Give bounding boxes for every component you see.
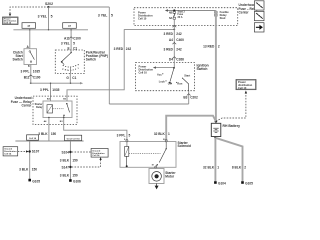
label 3 YEL 5 on line A bbox=[98, 14, 113, 18]
splice S147 dot bbox=[69, 166, 71, 168]
label A4 C400 bbox=[169, 38, 184, 42]
battery symbol bbox=[213, 128, 218, 132]
wire left ground chain bbox=[29, 141, 31, 180]
ground G106 dot bbox=[69, 179, 72, 182]
svg-text:32 BLK: 32 BLK bbox=[203, 166, 215, 170]
svg-text:242: 242 bbox=[126, 47, 132, 51]
underhood fuse-relay center dashed box bbox=[33, 96, 77, 124]
wire relay coil ground 3 BLK 150 bbox=[48, 118, 50, 142]
svg-text:G105: G105 bbox=[32, 179, 40, 183]
solenoid M terminal to motor bbox=[155, 165, 158, 169]
arrowhead up into reference box bbox=[245, 91, 247, 94]
svg-text:32 BLK: 32 BLK bbox=[154, 132, 166, 136]
svg-text:Center: Center bbox=[21, 103, 32, 107]
svg-text:2: 2 bbox=[244, 166, 246, 170]
clutch start switch label bbox=[13, 50, 24, 61]
svg-text:NB: NB bbox=[169, 11, 173, 14]
svg-text:5: 5 bbox=[129, 133, 131, 137]
label 32 BLK 1 (starter cable) bbox=[154, 132, 170, 136]
label 3 BLK 150 (right chain lower) bbox=[60, 173, 78, 177]
label 3 YEL 5 (PNP drop) bbox=[61, 41, 75, 45]
wire battery negative to G104 (thick) bbox=[214, 138, 216, 181]
starter motor box bbox=[149, 169, 164, 184]
boxed grid label 47 (right, on bus) bbox=[63, 23, 77, 29]
label 13 RED 2 bbox=[203, 45, 220, 49]
ignition switch internals bbox=[157, 63, 190, 91]
svg-text:Cell 10: Cell 10 bbox=[139, 70, 148, 74]
wire clutch start switch drop bbox=[29, 30, 31, 49]
svg-text:150: 150 bbox=[72, 158, 78, 162]
label 3 RED 242 (line B) bbox=[114, 47, 132, 51]
svg-text:1: 1 bbox=[217, 166, 219, 170]
underhood fuse-relay center dashed box (top) bbox=[134, 8, 238, 26]
svg-text:8 BLK: 8 BLK bbox=[232, 166, 242, 170]
svg-text:C100: C100 bbox=[33, 76, 41, 80]
splice S107 dot bbox=[29, 150, 31, 152]
svg-text:Cell 14: Cell 14 bbox=[29, 137, 37, 140]
fuse symbol bbox=[173, 11, 175, 19]
solenoid B terminal bbox=[165, 139, 167, 142]
collector wire 3 PPL 1035 with arrow bbox=[30, 82, 83, 84]
motor case ground arrow bbox=[155, 184, 158, 189]
dashed wire battery to power distribution reference bbox=[216, 94, 246, 122]
dashed link S147 to ground distribution box with up arrow bbox=[72, 157, 102, 167]
svg-text:S104: S104 bbox=[62, 150, 70, 154]
PNP switch label bbox=[86, 50, 108, 61]
svg-text:B3: B3 bbox=[183, 96, 187, 100]
wire PNP output bbox=[69, 74, 71, 84]
solenoid switch contact bbox=[157, 142, 167, 165]
junction dot at fuse tap bbox=[173, 9, 175, 11]
svg-text:3 YEL: 3 YEL bbox=[98, 14, 107, 18]
svg-text:3 BLK: 3 BLK bbox=[19, 168, 29, 172]
wire S202 down to bus bbox=[48, 7, 50, 30]
svg-text:Grnd Cell 14: Grnd Cell 14 bbox=[67, 137, 81, 140]
svg-text:242: 242 bbox=[176, 48, 182, 52]
svg-text:C202: C202 bbox=[190, 96, 198, 100]
svg-text:3 PPL: 3 PPL bbox=[40, 88, 49, 92]
svg-text:5: 5 bbox=[51, 15, 53, 19]
battery negative junction dot bbox=[214, 137, 216, 139]
wire relay switch feed (from fuse, line B) bbox=[67, 29, 124, 101]
splice S202 junction dot bbox=[47, 6, 49, 8]
solenoid coil bbox=[125, 142, 129, 156]
svg-text:242: 242 bbox=[176, 32, 182, 36]
starter solenoid box bbox=[120, 142, 176, 168]
junction ticks at collector bbox=[30, 83, 71, 84]
svg-text:M: M bbox=[155, 175, 157, 179]
wire S202 to line A (horizontal top) bbox=[49, 6, 110, 8]
ground G105 dot (right) bbox=[241, 181, 244, 184]
ground G104 dot bbox=[214, 181, 217, 184]
svg-text:Cell 10: Cell 10 bbox=[138, 16, 147, 20]
terminal E C1 label bbox=[68, 46, 78, 50]
label Power Distribution Cell 10 (inside top box) bbox=[138, 10, 153, 20]
label 3 RED 242 bbox=[164, 32, 182, 36]
label 3 PPL 1035 (coil stub) bbox=[40, 88, 60, 92]
svg-text:3 BLK: 3 BLK bbox=[60, 173, 70, 177]
svg-text:13 RED: 13 RED bbox=[203, 45, 215, 49]
wire relay coil feed stub bbox=[50, 83, 52, 101]
label Power Distribution Cell 10 (inside ignition box) bbox=[139, 64, 154, 74]
label 3 BLK 150 bbox=[38, 132, 56, 136]
underhood fuse-relay center label bbox=[11, 96, 33, 107]
starter motor label bbox=[165, 171, 176, 179]
wire clutch switch output 3 PPL 1035 bbox=[30, 65, 32, 84]
wire ignition START output drop bbox=[188, 91, 190, 104]
starter relay label bbox=[35, 103, 43, 109]
connector chevron at box exit bbox=[172, 26, 176, 28]
label B3 C202 on start output bbox=[183, 96, 198, 100]
boxed grid label (ground bus left) bbox=[27, 135, 39, 140]
svg-text:RH Battery: RH Battery bbox=[223, 124, 241, 128]
starter relay coil bbox=[47, 105, 53, 113]
bus wire (hot in start bar) bbox=[13, 29, 88, 31]
svg-text:5: 5 bbox=[73, 41, 75, 45]
connector chevron C400 bbox=[172, 43, 176, 45]
wire battery negative to G105 (thick diagonal) bbox=[215, 138, 242, 181]
svg-text:C100: C100 bbox=[73, 36, 81, 40]
svg-text:Motor: Motor bbox=[165, 174, 175, 178]
connector chevron C266 bbox=[172, 57, 176, 59]
svg-text:A11: A11 bbox=[64, 36, 70, 40]
svg-text:Cell 14: Cell 14 bbox=[92, 154, 100, 157]
arrowhead into power distribution box bbox=[9, 14, 11, 17]
solenoid S terminal bbox=[126, 139, 128, 142]
svg-text:G106: G106 bbox=[73, 180, 81, 184]
svg-text:A4: A4 bbox=[169, 38, 173, 42]
label 32 BLK 1 (ground cable) bbox=[203, 166, 219, 170]
svg-text:30 A: 30 A bbox=[178, 16, 183, 19]
toolbar icon button 2 (ruler) bbox=[254, 11, 264, 20]
reference box Ground Distribution Cell 14 (left) bbox=[3, 147, 18, 156]
wire START horizontal to ignition switch bbox=[109, 103, 188, 105]
svg-text:S107: S107 bbox=[32, 149, 40, 153]
solenoid coil-contact dashed link bbox=[129, 153, 161, 155]
starter relay switch contacts bbox=[63, 103, 69, 118]
solenoid coil case ground bbox=[126, 156, 128, 167]
boxed grid label 47 (left, on bus) bbox=[22, 23, 36, 29]
relay bottom cavity labels bbox=[44, 120, 64, 123]
svg-text:150: 150 bbox=[72, 173, 78, 177]
PNP switch internals bbox=[61, 50, 80, 74]
terminal G C1 label bbox=[66, 76, 76, 80]
svg-text:Stud: Stud bbox=[220, 16, 226, 20]
svg-text:M: M bbox=[152, 165, 154, 167]
svg-text:Off: Off bbox=[168, 82, 172, 86]
svg-text:3 BLK: 3 BLK bbox=[60, 158, 70, 162]
reference box Ground Distribution Cell 14 (right) bbox=[91, 149, 108, 158]
wire PNP switch drop bbox=[70, 30, 72, 50]
starter relay box bbox=[43, 101, 72, 118]
svg-text:3 RED: 3 RED bbox=[114, 47, 124, 51]
fuse terminal labels NB NA bbox=[169, 11, 173, 20]
label 3 PPL 1035 bbox=[21, 70, 41, 74]
junction dot at fuse branch bbox=[173, 29, 175, 31]
wire fuse T branch bbox=[124, 28, 174, 30]
svg-text:150: 150 bbox=[51, 132, 57, 136]
wire fuse output drop 3 RED 242 bbox=[173, 19, 175, 62]
battery positive junction dot bbox=[215, 120, 218, 123]
svg-text:Lock: Lock bbox=[159, 79, 166, 83]
junction ticks at bus bbox=[29, 29, 72, 30]
solenoid terminal labels bbox=[124, 139, 165, 167]
toolbar icon button 3 (arrow) bbox=[254, 23, 264, 32]
svg-text:Cell 10: Cell 10 bbox=[4, 23, 12, 25]
svg-text:S147: S147 bbox=[62, 165, 70, 169]
connector C100 chevron (clutch wire) bbox=[29, 75, 33, 77]
label A11 C100 bbox=[64, 36, 81, 40]
svg-text:S202: S202 bbox=[45, 2, 53, 6]
svg-text:5: 5 bbox=[111, 14, 113, 18]
label Underhood Fuse-Relay Center (top right) bbox=[239, 3, 259, 15]
boxed grid label (ground bus right) bbox=[65, 135, 82, 140]
svg-text:B: B bbox=[28, 65, 30, 68]
svg-text:3 PPL: 3 PPL bbox=[117, 133, 126, 137]
starter motor symbol bbox=[152, 172, 162, 182]
svg-text:G105: G105 bbox=[245, 181, 253, 185]
svg-text:3 RED: 3 RED bbox=[164, 48, 174, 52]
battery feed stud terminal bbox=[215, 11, 217, 16]
svg-text:B11: B11 bbox=[24, 76, 30, 80]
label 3 YEL 5 on S202 drop bbox=[38, 15, 53, 19]
PNP switch dashed box bbox=[55, 50, 84, 74]
label 3 BLK 150 (right chain upper) bbox=[60, 158, 78, 162]
svg-text:Cell 10: Cell 10 bbox=[238, 86, 247, 90]
ground G105 dot bbox=[28, 179, 31, 182]
wire right ground chain bbox=[69, 141, 71, 181]
clutch start switch contacts bbox=[29, 51, 34, 63]
svg-text:1035: 1035 bbox=[52, 88, 59, 92]
label 8 BLK 2 bbox=[232, 166, 246, 170]
clutch start switch box bbox=[24, 49, 37, 65]
battery box bbox=[211, 123, 221, 136]
ground bus wire bbox=[15, 140, 83, 142]
svg-text:Switch: Switch bbox=[86, 58, 96, 62]
svg-text:3 PPL: 3 PPL bbox=[21, 70, 30, 74]
label D4 C266 bbox=[169, 57, 184, 61]
splice S104 dot bbox=[69, 151, 71, 153]
svg-text:G104: G104 bbox=[218, 181, 226, 185]
svg-text:NA: NA bbox=[169, 17, 173, 20]
svg-text:3 BLK: 3 BLK bbox=[38, 132, 48, 136]
dashed link to ground distribution box bbox=[72, 151, 91, 153]
svg-text:Relay: Relay bbox=[36, 106, 43, 109]
wire starter B cable (thick) bbox=[166, 116, 216, 142]
svg-text:D4: D4 bbox=[169, 57, 173, 61]
svg-text:Switch: Switch bbox=[13, 58, 23, 62]
svg-text:3 YEL: 3 YEL bbox=[61, 41, 70, 45]
wire line A 3 YEL 5 vertical bbox=[108, 7, 110, 104]
svg-text:1: 1 bbox=[168, 132, 170, 136]
label 3 BLK 150 (left chain) bbox=[19, 168, 37, 172]
svg-text:C400: C400 bbox=[176, 38, 184, 42]
fuse name label bbox=[178, 10, 186, 18]
svg-text:C266: C266 bbox=[176, 57, 184, 61]
label 3 PPL 5 bbox=[117, 133, 131, 137]
svg-text:1035: 1035 bbox=[33, 70, 40, 74]
svg-text:2: 2 bbox=[218, 45, 220, 49]
svg-text:Solenoid: Solenoid bbox=[178, 144, 192, 148]
ignition feed arrow to power distribution bbox=[153, 66, 175, 68]
label B11 C100 bbox=[24, 76, 41, 80]
dashed arrow to splice S107 bbox=[18, 150, 29, 152]
svg-text:Start: Start bbox=[184, 73, 190, 77]
svg-text:Switch: Switch bbox=[197, 67, 208, 71]
starter relay coil-switch dashed link bbox=[53, 108, 65, 110]
wire relay output to starter S terminal 3 PPL 5 bbox=[64, 118, 127, 142]
ignition switch dashed box bbox=[136, 63, 195, 91]
stud label bbox=[220, 10, 230, 20]
svg-text:C1: C1 bbox=[72, 76, 76, 80]
svg-text:Acc: Acc bbox=[157, 72, 162, 76]
wire 13 RED 2 battery feed (thick) bbox=[215, 11, 217, 122]
svg-text:3 RED: 3 RED bbox=[164, 32, 174, 36]
connector C100 chevron (PNP wire) bbox=[69, 37, 73, 39]
label 3 RED 242 (second) bbox=[164, 48, 182, 52]
reference box Power Distribution Cell 10 (right) bbox=[236, 80, 256, 90]
dashed wire S202 to power distribution reference bbox=[10, 7, 49, 13]
starter solenoid label bbox=[178, 141, 192, 148]
svg-text:Cell 14: Cell 14 bbox=[4, 153, 12, 156]
relay top cavity labels bbox=[47, 98, 67, 101]
svg-text:Center: Center bbox=[239, 11, 250, 15]
toolbar icon button 1 (ruler) bbox=[254, 1, 264, 10]
internal bus wire with left arrow bbox=[165, 9, 216, 11]
svg-text:3 YEL: 3 YEL bbox=[38, 15, 47, 19]
reference box Power Distribution Cell 10 (top left) bbox=[3, 17, 19, 25]
ignition switch label bbox=[197, 63, 209, 71]
svg-text:150: 150 bbox=[32, 168, 38, 172]
connector chevron C202 bbox=[187, 94, 191, 96]
svg-text:Run: Run bbox=[177, 81, 182, 85]
